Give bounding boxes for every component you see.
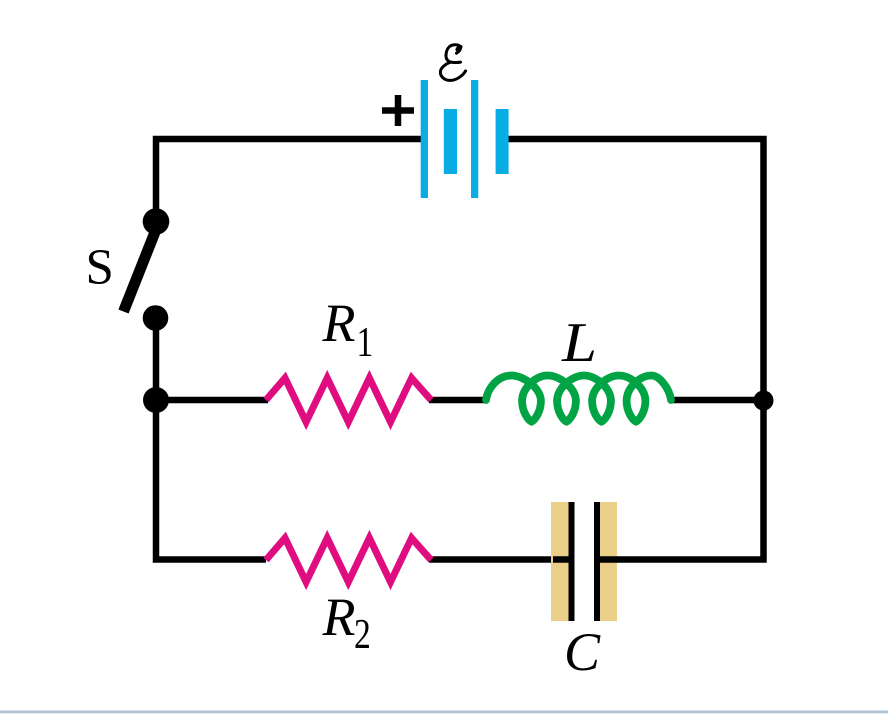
switch top dot [143,208,170,235]
capacitor right tan bar [600,502,617,621]
junction dot right middle [754,391,774,411]
svg-text:2: 2 [354,612,371,658]
wire: battery left terminal to top-left corner down to switch top [156,139,423,222]
resistor R1 zigzag [266,378,431,422]
svg-text:R: R [322,293,356,353]
battery plate 2 short thick [444,109,457,174]
bottom page divider line [0,711,888,714]
resistor R2 zigzag [266,538,431,582]
svg-text:S: S [86,240,114,296]
junction dot left middle [143,387,169,413]
capacitor left plate black line [569,502,575,621]
capacitor right plate black line [594,502,600,621]
wire: inductor L to right junction [672,397,764,404]
svg-text:C: C [564,622,601,682]
wire: R2 to capacitor [429,556,571,563]
plus sign of battery polarity [382,95,414,126]
capacitor wire stubs crossing tan bars [553,556,618,563]
capacitor left tan bar [551,502,569,621]
wire: left junction to resistor R1 [156,397,268,404]
switch blade (open) [124,227,158,312]
svg-text:1: 1 [357,320,374,366]
battery plate 3 long thin [471,80,478,198]
wire: switch bottom dot down left side through junction to bottom-left corner then right to capacitor [156,316,266,560]
inductor L coil [486,376,671,422]
battery plate 1 long thin (positive terminal) [421,80,428,198]
battery plate 4 short thick [496,109,509,174]
svg-text:L: L [561,312,597,374]
switch bottom dot [143,305,169,331]
EMF script-E label [440,44,465,81]
wire: between R1 and inductor L [429,397,484,404]
svg-text:R: R [322,587,356,647]
wire: battery right terminal to top-right corner, down right side, bottom-right corner to capacitor [506,139,764,560]
